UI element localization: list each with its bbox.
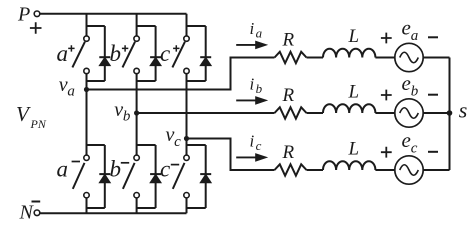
switch b+ xyxy=(123,36,140,74)
switch a+ xyxy=(72,36,89,74)
diode Dc+ xyxy=(200,26,211,81)
svg-text:c: c xyxy=(256,138,262,153)
wire c upper join xyxy=(187,74,206,139)
svg-text:i: i xyxy=(250,75,255,94)
svg-text:R: R xyxy=(282,85,295,106)
label + e_a xyxy=(381,33,392,44)
resistor R phase c xyxy=(275,164,307,175)
node v_c xyxy=(184,136,189,141)
current arrow i_a xyxy=(236,41,268,50)
svg-text:c: c xyxy=(411,141,418,157)
wire b upper join xyxy=(137,74,156,113)
label + e_c xyxy=(381,147,392,158)
svg-text:a: a xyxy=(411,28,419,44)
svg-text:i: i xyxy=(250,19,255,38)
wire v_b to phase b xyxy=(137,112,275,114)
label - e_a xyxy=(428,36,438,38)
label i_c xyxy=(250,132,262,153)
svg-text:L: L xyxy=(348,82,360,103)
wire v_a to phase a xyxy=(87,58,275,90)
label + e_b xyxy=(381,90,392,101)
svg-text:s: s xyxy=(459,97,468,122)
wire L to source xyxy=(375,112,394,114)
svg-text:b: b xyxy=(411,84,419,100)
switch b- xyxy=(123,155,139,198)
svg-text:V: V xyxy=(16,102,31,126)
svg-text:L: L xyxy=(348,139,360,160)
svg-text:R: R xyxy=(282,29,295,50)
wire leg a lower drop xyxy=(87,90,105,156)
wire v_c to phase c xyxy=(187,139,275,171)
label i_a xyxy=(250,19,263,40)
svg-text:L: L xyxy=(348,26,360,47)
wire c lower join xyxy=(187,198,206,213)
svg-text:b: b xyxy=(256,81,263,96)
diode Da- xyxy=(99,145,110,208)
svg-text:a: a xyxy=(57,41,69,66)
label b+ xyxy=(110,41,129,66)
svg-text:c: c xyxy=(174,134,181,150)
wire source to bus xyxy=(423,112,449,114)
terminal N xyxy=(19,202,41,224)
svg-text:c: c xyxy=(160,157,170,182)
svg-text:PN: PN xyxy=(30,117,47,131)
label a- xyxy=(57,157,81,182)
label - e_c xyxy=(428,151,438,153)
label c+ xyxy=(160,41,180,66)
svg-text:a: a xyxy=(57,157,69,182)
diode Db- xyxy=(150,145,161,208)
label V_PN xyxy=(16,102,47,131)
node v_a xyxy=(84,87,89,92)
resistor R phase b xyxy=(275,107,307,118)
wire a lower join xyxy=(87,198,105,213)
svg-text:N: N xyxy=(19,202,35,224)
wire leg b upper drop xyxy=(137,14,156,36)
wire R to L xyxy=(307,169,324,171)
label i_b xyxy=(250,75,263,96)
svg-text:e: e xyxy=(402,71,411,95)
svg-text:R: R xyxy=(282,142,295,163)
source e_c xyxy=(395,156,423,184)
wire N rail xyxy=(40,212,187,214)
svg-text:P: P xyxy=(17,4,30,26)
wire R to L xyxy=(307,57,324,59)
wire a upper join xyxy=(87,74,105,90)
inductor L phase b xyxy=(323,104,375,113)
source e_a xyxy=(395,43,423,71)
switch a- xyxy=(73,155,89,198)
node s xyxy=(447,110,453,116)
wire P rail xyxy=(40,13,187,15)
svg-text:b: b xyxy=(110,157,122,182)
wire R to L xyxy=(307,112,324,114)
svg-text:a: a xyxy=(67,83,75,99)
label e_c xyxy=(402,128,418,157)
svg-text:i: i xyxy=(250,132,255,151)
label e_a xyxy=(402,16,419,45)
label a+ xyxy=(57,41,75,66)
svg-text:b: b xyxy=(123,109,131,125)
svg-text:e: e xyxy=(402,16,411,40)
wire source to bus xyxy=(423,57,449,59)
wire right bus xyxy=(449,58,451,171)
wire leg c lower drop xyxy=(187,139,206,156)
inductor L phase a xyxy=(323,49,375,58)
switch c+ xyxy=(172,36,189,74)
current arrow i_b xyxy=(236,96,268,105)
wire leg a upper drop xyxy=(87,14,105,36)
resistor R phase a xyxy=(275,52,307,63)
svg-text:b: b xyxy=(110,41,122,66)
source e_b xyxy=(395,99,423,127)
svg-text:e: e xyxy=(402,128,411,152)
label b- xyxy=(110,157,130,182)
label v_a xyxy=(59,74,75,100)
node v_b xyxy=(134,110,139,115)
label v_c xyxy=(166,124,182,150)
wire b lower join xyxy=(137,198,156,213)
wire L to source xyxy=(375,57,394,59)
svg-text:a: a xyxy=(256,25,263,40)
diode Da+ xyxy=(99,26,110,81)
diode Db+ xyxy=(150,26,161,81)
label c- xyxy=(160,157,179,182)
terminal P xyxy=(17,4,42,34)
svg-text:c: c xyxy=(160,41,170,66)
inductor L phase c xyxy=(323,161,375,170)
current arrow i_c xyxy=(236,153,268,162)
label - e_b xyxy=(428,94,438,96)
label e_b xyxy=(402,71,419,100)
wire leg c upper drop xyxy=(187,14,206,36)
switch c- xyxy=(173,155,189,198)
wire L to source xyxy=(375,169,394,171)
wire leg b lower drop xyxy=(137,113,156,155)
label v_b xyxy=(114,99,131,125)
diode Dc- xyxy=(200,145,211,208)
wire source to bus xyxy=(423,169,449,171)
